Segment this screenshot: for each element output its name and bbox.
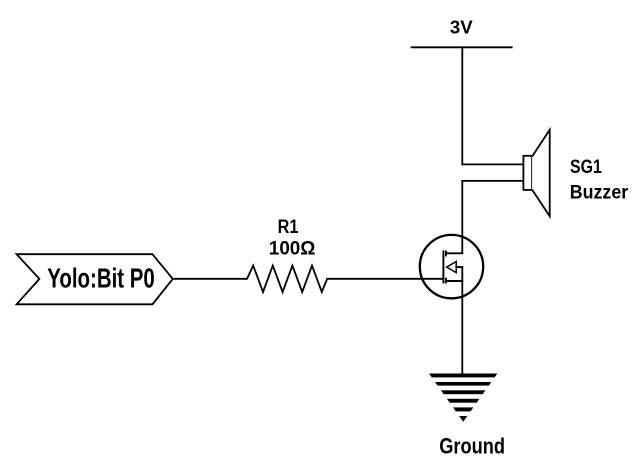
- svg-text:Yolo:Bit P0: Yolo:Bit P0: [47, 263, 155, 294]
- svg-text:R1: R1: [278, 217, 299, 238]
- svg-text:100Ω: 100Ω: [269, 238, 316, 260]
- svg-text:3V: 3V: [450, 17, 473, 37]
- svg-text:Ground: Ground: [439, 434, 505, 459]
- svg-text:SG1: SG1: [570, 156, 602, 178]
- svg-text:Buzzer: Buzzer: [570, 181, 629, 203]
